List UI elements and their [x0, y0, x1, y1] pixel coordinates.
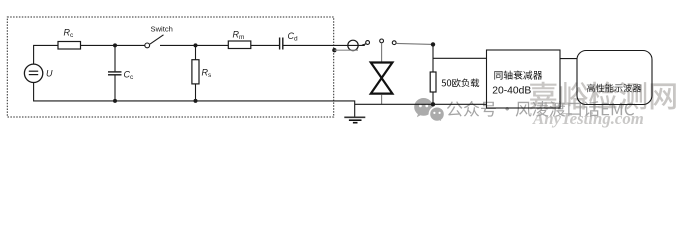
svg-text:Switch: Switch — [151, 24, 173, 33]
wire T3 to load node — [396, 43, 433, 44]
svg-text:AnyTesting.com: AnyTesting.com — [532, 109, 644, 128]
resistor 50ohm load — [430, 72, 436, 92]
switch arm — [150, 35, 164, 44]
oscilloscope box fill (under watermark) — [577, 51, 652, 105]
output connector circle — [348, 40, 358, 50]
terminal T3 — [392, 41, 396, 45]
wire ground rail — [355, 103, 487, 105]
terminal T2 — [380, 39, 384, 43]
svg-text:20-40dB: 20-40dB — [492, 86, 531, 97]
wire Rc to switch — [81, 44, 145, 46]
wire Rm to Cd — [251, 44, 279, 46]
capacitor Cc — [114, 45, 116, 71]
watermark wechat icon — [414, 98, 444, 123]
wire load bottom lead — [432, 92, 434, 104]
generator dashed box — [7, 17, 333, 117]
watermark 嘉峪检测网 — [529, 81, 676, 109]
ground — [344, 116, 365, 118]
wire bottom rail — [34, 83, 355, 118]
TVS suppressor — [371, 63, 393, 94]
wire shield stub — [334, 49, 358, 51]
watermark 公众号·风凌渡口话EMC — [447, 101, 634, 117]
svg-text:U: U — [46, 69, 53, 79]
wire T2 down to suppressor — [381, 43, 383, 62]
node junction at Cc bottom — [113, 99, 117, 103]
attenuator box fill (under watermark) — [487, 50, 561, 108]
wire TVS bottom lead — [381, 95, 383, 105]
label 50欧负载 — [442, 79, 480, 88]
wire Cd to output connector — [283, 44, 365, 46]
wire source top lead — [34, 45, 58, 64]
wire load node down — [432, 44, 434, 72]
node junction load-ground — [431, 102, 435, 106]
voltage source U — [24, 64, 42, 82]
label 同轴衰减器 — [494, 71, 542, 80]
wire switch to Rm — [160, 44, 228, 46]
switch contact — [145, 43, 150, 48]
resistor Rm — [228, 41, 251, 49]
wire connector to terminal — [362, 44, 367, 46]
node junction at Cc top — [113, 43, 117, 47]
node shield junction on box edge — [332, 48, 336, 52]
node at load top — [431, 42, 435, 46]
wire to attenuator — [433, 57, 487, 59]
node junction at Rs top — [194, 43, 198, 47]
resistor Rc — [58, 42, 81, 50]
attenuator box — [487, 50, 561, 108]
wire attenuator to oscilloscope — [560, 58, 577, 60]
resistor Rs — [195, 45, 197, 59]
terminal T1 — [366, 41, 370, 45]
label 高性能示波器 — [587, 84, 641, 93]
capacitor Cd — [279, 38, 281, 50]
node junction at Rs bottom — [194, 99, 198, 103]
oscilloscope box — [577, 51, 652, 105]
